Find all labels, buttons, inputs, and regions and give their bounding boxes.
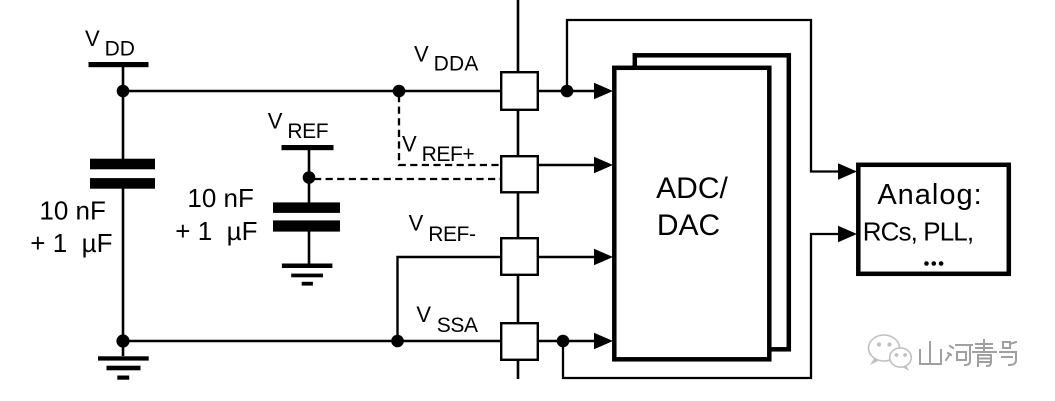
ground GND2 (282, 264, 333, 286)
pin box VREF- (501, 238, 538, 275)
ADC/DAC back box (635, 55, 789, 349)
wire: VREF- pin to ADC arrow (539, 256, 596, 258)
wire: ground rail VSS horizontal to VSSA pin (123, 340, 500, 342)
arrow into Analog top (838, 163, 857, 179)
svg-text:DDA: DDA (434, 53, 479, 76)
power bar VDD (89, 62, 149, 67)
label VDDA (414, 42, 479, 76)
svg-text:+ 1 µF: + 1 µF (30, 228, 112, 258)
capacitor C1 bottom plate (90, 178, 155, 189)
arrow into Analog bottom (838, 226, 857, 242)
Analog block (858, 165, 1009, 274)
label VREF+ (402, 132, 474, 167)
svg-text:V: V (268, 109, 283, 134)
arrow into ADC at VDDA (594, 83, 613, 99)
svg-text:V: V (416, 302, 431, 327)
char he (946, 345, 972, 365)
svg-text:ADC/: ADC/ (656, 172, 728, 205)
svg-text:DAC: DAC (657, 209, 720, 242)
power bar VREF (282, 145, 334, 150)
ADC/DAC front box U1 (614, 68, 769, 360)
char qing (973, 340, 996, 366)
wire: bottom feedback loop to Analog block (563, 234, 840, 378)
wire: VSSA pin to ADC arrow (539, 340, 596, 342)
wire: dashed from VREF cap to VREF+ pin (314, 178, 500, 180)
pin box VSSA (501, 323, 538, 360)
watermark wechat icon (869, 335, 912, 371)
svg-text:V: V (402, 132, 417, 157)
capacitor C2 bottom plate (273, 220, 340, 231)
pin box VREF+ (501, 156, 538, 192)
wire: top feedback loop to Analog block (567, 20, 840, 172)
wire: main pin column vertical (517, 0, 520, 379)
arrow into ADC at VREF- (594, 249, 613, 265)
value label C1: 10 nF + 1 uF (30, 196, 112, 258)
svg-text:10 nF: 10 nF (39, 196, 106, 226)
wire: VDDA pin to ADC arrow (539, 90, 596, 92)
label VREF (268, 109, 328, 143)
label VSSA (416, 302, 478, 337)
svg-text:REF: REF (287, 120, 328, 143)
node: junction dot bottom feedback tap (557, 335, 570, 348)
label ... (924, 261, 943, 266)
svg-text:V: V (414, 42, 429, 67)
wire: VREF vertical upper segment (308, 150, 311, 203)
wire: VDD vertical lower segment (cap to ground) (122, 188, 125, 356)
svg-text:Analog:: Analog: (877, 179, 982, 211)
label VDD (85, 26, 135, 61)
node: junction dot VDD bar (117, 85, 130, 98)
arrow into ADC at VREF+ (594, 157, 613, 173)
svg-text:V: V (85, 26, 100, 51)
svg-text:DD: DD (105, 37, 135, 60)
svg-text:SSA: SSA (437, 314, 478, 337)
char niao (1000, 342, 1016, 365)
svg-text:V: V (409, 211, 424, 236)
node: junction dot VREF cap (303, 171, 316, 184)
node: junction dot top feedback tap (561, 85, 574, 98)
capacitor C1 top plate (90, 159, 155, 170)
wire: VREF vertical lower segment (cap to ground) (308, 231, 311, 264)
value label C2: 10 nF + 1 uF (175, 183, 257, 246)
svg-text:REF+: REF+ (422, 143, 475, 166)
wire: dashed VREF+ from VDDA rail (399, 95, 500, 165)
watermark text shan he qing niao (920, 340, 1016, 366)
node: junction dot VREF-/VSS rail (391, 335, 404, 348)
label VREF- (409, 211, 476, 247)
arrow into ADC at VSSA (594, 333, 613, 349)
pin box VDDA (501, 72, 538, 110)
char shan (920, 342, 941, 364)
svg-text:RCs, PLL,: RCs, PLL, (863, 217, 973, 247)
ground GND1 (98, 356, 149, 379)
node: junction dot VSS left (116, 334, 129, 347)
svg-text:REF-: REF- (428, 223, 476, 246)
wire: VDD horizontal rail to VDDA pin (123, 90, 500, 92)
wire: VREF- L-shaped wire (398, 257, 501, 341)
node: junction dot VDDA/VREF+ tap (393, 85, 406, 98)
svg-text:+ 1 µF: + 1 µF (175, 216, 257, 246)
capacitor C2 top plate (273, 202, 340, 213)
wire: VREF+ pin to ADC arrow (539, 164, 596, 166)
svg-text:10 nF: 10 nF (187, 183, 254, 213)
wire: VDD vertical upper segment (122, 67, 125, 159)
